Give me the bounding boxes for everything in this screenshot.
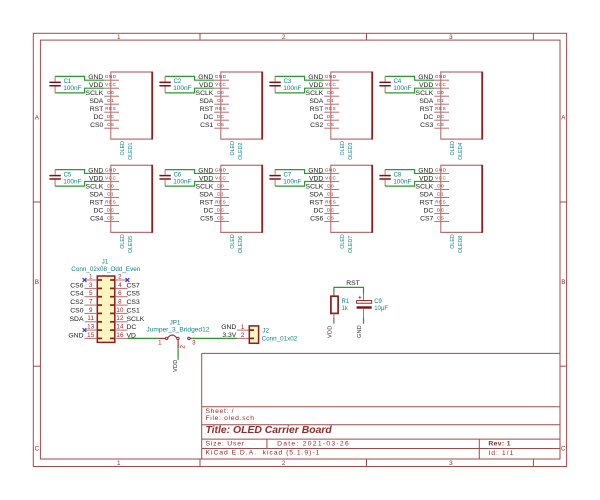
wire C5 to OLED5 GND/VDD	[55, 170, 104, 187]
svg-text:8: 8	[118, 298, 122, 305]
wire C1 to OLED1 GND/VDD	[55, 76, 104, 93]
svg-text:12: 12	[116, 315, 124, 322]
wire C9 bottom to GND	[363, 317, 365, 323]
svg-text:Jumper_3_Bridged12: Jumper_3_Bridged12	[146, 327, 209, 334]
svg-text:1: 1	[117, 34, 121, 41]
svg-text:100nF: 100nF	[283, 85, 301, 92]
jumper JP1 Jumper_3_Bridged12	[146, 320, 209, 349]
svg-text:1k: 1k	[342, 306, 349, 312]
OLED connector OLED1 with net labels GND VDD SCLK SDA RST DC CS0	[86, 72, 153, 160]
svg-text:100nF: 100nF	[63, 178, 81, 185]
svg-text:Rev: 1: Rev: 1	[488, 440, 511, 447]
connector J1 Conn_02x08_Odd_Even	[68, 259, 144, 343]
capacitor C3 100nF	[269, 76, 301, 93]
svg-text:1: 1	[89, 273, 93, 280]
OLED connector OLED2 with net labels GND VDD SCLK SDA RST DC CS1	[196, 72, 263, 160]
svg-text:CS0: CS0	[90, 122, 103, 129]
svg-text:4: 4	[118, 282, 122, 289]
capacitor C1 100nF	[49, 76, 81, 93]
svg-text:GND: GND	[68, 332, 83, 339]
svg-text:JP1: JP1	[170, 320, 181, 327]
svg-text:100nF: 100nF	[63, 85, 81, 92]
svg-text:2: 2	[118, 273, 122, 280]
svg-text:10: 10	[116, 307, 124, 314]
svg-text:CS4: CS4	[70, 291, 83, 298]
svg-text:CS3: CS3	[420, 122, 433, 129]
svg-text:2: 2	[282, 460, 286, 467]
svg-text:OLED8: OLED8	[458, 236, 464, 253]
svg-text:C2: C2	[174, 79, 182, 85]
svg-text:OLED6: OLED6	[238, 236, 244, 253]
capacitor C6 100nF	[159, 170, 191, 187]
svg-text:1: 1	[241, 324, 245, 331]
svg-text:CS6: CS6	[310, 215, 323, 222]
wire C8 to OLED8 GND/VDD	[385, 170, 434, 187]
svg-text:CS2: CS2	[310, 122, 323, 129]
svg-text:SCLK: SCLK	[127, 316, 145, 323]
svg-text:CS5: CS5	[127, 291, 140, 298]
svg-text:C6: C6	[174, 172, 182, 178]
capacitor C5 100nF	[49, 170, 81, 187]
wire 3.3V net: JP1 pin3 to J2 pin2	[192, 337, 237, 339]
svg-text:Conn_01x02: Conn_01x02	[262, 336, 298, 343]
OLED connector OLED5 with net labels GND VDD SCLK SDA RST DC CS4	[86, 165, 153, 253]
svg-text:C: C	[35, 445, 40, 452]
svg-text:Size: User: Size: User	[206, 441, 245, 448]
svg-text:DC: DC	[127, 324, 137, 331]
svg-text:Id: 1/1: Id: 1/1	[488, 450, 514, 457]
svg-text:10µF: 10µF	[374, 306, 388, 312]
svg-text:2: 2	[179, 345, 186, 349]
svg-text:CS2: CS2	[70, 299, 83, 306]
no-connect X on J1 pin 2	[126, 278, 130, 282]
svg-text:C1: C1	[64, 79, 72, 85]
resistor R1 1k	[331, 295, 350, 317]
svg-text:16: 16	[116, 332, 124, 339]
svg-text:CS1: CS1	[127, 307, 140, 314]
svg-text:OLED1: OLED1	[128, 142, 134, 159]
svg-text:13: 13	[87, 324, 95, 331]
svg-text:2: 2	[241, 332, 245, 339]
wire C6 to OLED6 GND/VDD	[165, 170, 214, 187]
svg-text:100nF: 100nF	[173, 178, 191, 185]
svg-text:R1: R1	[342, 299, 350, 305]
capacitor C2 100nF	[159, 76, 191, 93]
OLED connector OLED3 with net labels GND VDD SCLK SDA RST DC CS2	[306, 72, 373, 160]
svg-text:100nF: 100nF	[283, 178, 301, 185]
capacitor C7 100nF	[269, 170, 301, 187]
svg-text:Date: 2021-03-26: Date: 2021-03-26	[277, 441, 350, 448]
svg-text:CS0: CS0	[70, 307, 83, 314]
svg-text:1: 1	[117, 460, 121, 467]
svg-text:3: 3	[192, 339, 196, 346]
connector J2 Conn_01x02 with net labels GND 3.3V	[221, 324, 298, 343]
svg-text:5: 5	[89, 290, 93, 297]
svg-text:100nF: 100nF	[393, 178, 411, 185]
OLED connector OLED7 with net labels GND VDD SCLK SDA RST DC CS6	[306, 165, 373, 253]
svg-text:100nF: 100nF	[173, 85, 191, 92]
svg-text:CS7: CS7	[127, 282, 140, 289]
svg-text:3.3V: 3.3V	[222, 332, 236, 339]
wire C7 to OLED7 GND/VDD	[275, 170, 324, 187]
wire RST: R1 top to C9 top	[334, 287, 364, 295]
wire C4 to OLED4 GND/VDD	[385, 76, 434, 93]
no-connect X on J1 pin 13	[83, 328, 87, 332]
svg-text:Conn_02x08_Odd_Even: Conn_02x08_Odd_Even	[71, 266, 140, 273]
svg-text:C9: C9	[374, 299, 382, 305]
svg-text:OLED2: OLED2	[238, 142, 244, 159]
OLED connector OLED4 with net labels GND VDD SCLK SDA RST DC CS3	[416, 72, 483, 160]
svg-text:C: C	[561, 445, 566, 452]
svg-text:B: B	[35, 279, 39, 286]
svg-text:9: 9	[89, 307, 93, 314]
svg-text:CS1: CS1	[200, 122, 213, 129]
svg-text:J1: J1	[102, 259, 109, 266]
svg-text:B: B	[561, 279, 565, 286]
svg-text:RST: RST	[346, 280, 360, 287]
svg-text:GND: GND	[221, 324, 236, 331]
svg-text:15: 15	[87, 332, 95, 339]
svg-text:OLED5: OLED5	[128, 236, 134, 253]
svg-text:OLED4: OLED4	[458, 142, 464, 159]
svg-text:CS6: CS6	[70, 282, 83, 289]
svg-text:OLED3: OLED3	[348, 142, 354, 159]
wire C2 to OLED2 GND/VDD	[165, 76, 214, 93]
svg-text:3: 3	[449, 460, 453, 467]
svg-text:J2: J2	[262, 328, 269, 335]
svg-text:CS5: CS5	[200, 215, 213, 222]
svg-text:CS3: CS3	[127, 299, 140, 306]
capacitor C4 100nF	[379, 76, 411, 93]
wire R1 bottom to VDD	[333, 317, 335, 323]
svg-text:3: 3	[89, 282, 93, 289]
svg-text:C3: C3	[284, 79, 292, 85]
no-connect X on J1 pin 1	[83, 278, 87, 282]
svg-text:KiCad E.D.A. kicad (5.1.9)-1: KiCad E.D.A. kicad (5.1.9)-1	[206, 450, 321, 457]
svg-text:11: 11	[87, 315, 94, 322]
svg-text:SDA: SDA	[70, 316, 84, 323]
svg-text:OLED7: OLED7	[348, 236, 354, 253]
svg-text:CS4: CS4	[90, 215, 103, 222]
svg-text:C4: C4	[394, 79, 402, 85]
wire C3 to OLED3 GND/VDD	[275, 76, 324, 93]
svg-text:C8: C8	[394, 172, 402, 178]
svg-text:Title: OLED Carrier Board: Title: OLED Carrier Board	[206, 425, 333, 436]
svg-text:CS7: CS7	[420, 215, 433, 222]
svg-text:1: 1	[158, 339, 162, 346]
OLED connector OLED8 with net labels GND VDD SCLK SDA RST DC CS7	[416, 165, 483, 253]
wire JP1 pin2 down to VDD	[177, 348, 179, 360]
capacitor C9 10uF polarized	[357, 294, 389, 318]
svg-text:C7: C7	[284, 172, 292, 178]
capacitor C8 100nF	[379, 170, 411, 187]
svg-text:VDD: VDD	[173, 360, 179, 372]
svg-text:14: 14	[116, 324, 124, 331]
svg-text:C5: C5	[64, 172, 72, 178]
wire VDD net: J1 pin16 to JP1 pin1	[128, 337, 159, 339]
svg-text:VDD: VDD	[327, 326, 333, 338]
svg-text:3: 3	[449, 34, 453, 41]
svg-text:6: 6	[118, 290, 122, 297]
svg-text:File: oled.sch: File: oled.sch	[206, 415, 255, 422]
svg-text:GND: GND	[357, 325, 363, 338]
OLED connector OLED6 with net labels GND VDD SCLK SDA RST DC CS5	[196, 165, 263, 253]
svg-text:2: 2	[282, 34, 286, 41]
svg-text:7: 7	[89, 298, 93, 305]
svg-text:100nF: 100nF	[393, 85, 411, 92]
